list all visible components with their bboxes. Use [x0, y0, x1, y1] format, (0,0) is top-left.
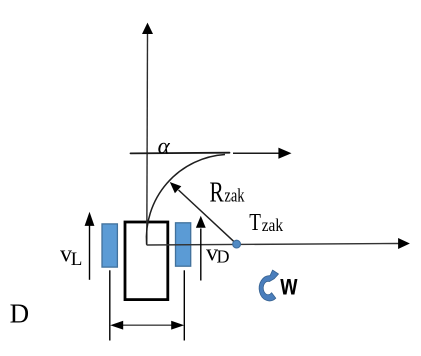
svg-text:w: w — [280, 267, 298, 301]
rotation arrow w (curved) — [259, 270, 278, 301]
T_zak point — [233, 240, 241, 248]
svg-text:zak: zak — [262, 215, 284, 235]
robot body — [125, 222, 168, 300]
svg-text:D: D — [217, 247, 230, 267]
R_zak radius arrow — [179, 190, 237, 244]
svg-text:L: L — [71, 249, 83, 270]
alpha reference line — [131, 152, 230, 155]
horizontal axis arrow — [233, 152, 279, 154]
svg-text:zak: zak — [224, 185, 245, 206]
svg-text:T: T — [249, 208, 261, 236]
left wheel — [102, 224, 117, 267]
svg-text:D: D — [10, 299, 30, 329]
vL arrow — [89, 225, 91, 280]
vertical axis — [146, 34, 149, 245]
svg-text:α: α — [158, 134, 171, 159]
D dimension double arrow — [118, 324, 178, 326]
long horizontal axis through T_zak — [147, 244, 399, 246]
svg-text:R: R — [210, 178, 225, 208]
vD arrow — [200, 229, 202, 281]
turning arc — [146, 155, 225, 245]
right dimension line — [183, 270, 185, 340]
right wheel — [176, 223, 191, 266]
left dimension line — [109, 270, 111, 340]
